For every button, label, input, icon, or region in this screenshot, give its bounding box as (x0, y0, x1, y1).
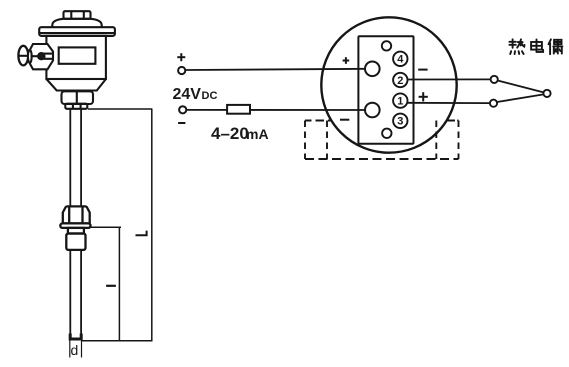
svg-text:24V: 24V (173, 86, 202, 103)
svg-text:d: d (71, 342, 79, 358)
svg-text:3: 3 (397, 116, 403, 128)
svg-text:1: 1 (397, 96, 403, 108)
svg-text:4: 4 (397, 54, 404, 66)
svg-text:mA: mA (246, 126, 269, 142)
svg-text:DC: DC (202, 90, 218, 102)
svg-text:4–20: 4–20 (211, 124, 249, 143)
svg-text:2: 2 (397, 75, 403, 87)
